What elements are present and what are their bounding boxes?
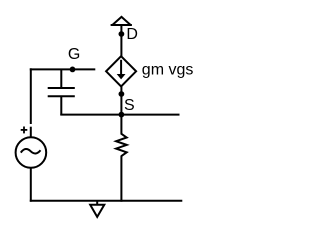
voltage source V1 circle (16, 137, 47, 168)
node G dot (70, 67, 76, 73)
bottom wire (30, 200, 183, 202)
wire left vertical lower (30, 168, 32, 202)
node S dot (119, 91, 125, 97)
supply symbol VDD top triangle (111, 17, 132, 25)
sine wave inside source (21, 149, 41, 153)
svg-text:D: D (126, 26, 138, 43)
ground stub (96, 201, 98, 205)
arrow inside current source (120, 60, 122, 74)
ground triangle (90, 205, 104, 217)
junction dot S row (119, 112, 125, 118)
resistor R top lead (120, 115, 122, 135)
node D dot (119, 31, 125, 37)
wire source vertical (120, 86, 122, 115)
wire gate row horizontal (30, 68, 96, 70)
resistor R bottom lead (120, 156, 122, 202)
wire S row horizontal (60, 114, 179, 116)
svg-text:S: S (124, 97, 135, 114)
wire left vertical upper (30, 68, 32, 124)
plus sign of source (21, 127, 28, 134)
wire into source top (30, 127, 32, 138)
resistor R zigzag (116, 134, 127, 156)
capacitor Cgs (48, 69, 75, 115)
dependent current source U1 diamond (106, 56, 136, 86)
svg-text:G: G (68, 46, 80, 63)
wire drain vertical (120, 26, 122, 58)
svg-text:gm vgs: gm vgs (142, 62, 194, 79)
